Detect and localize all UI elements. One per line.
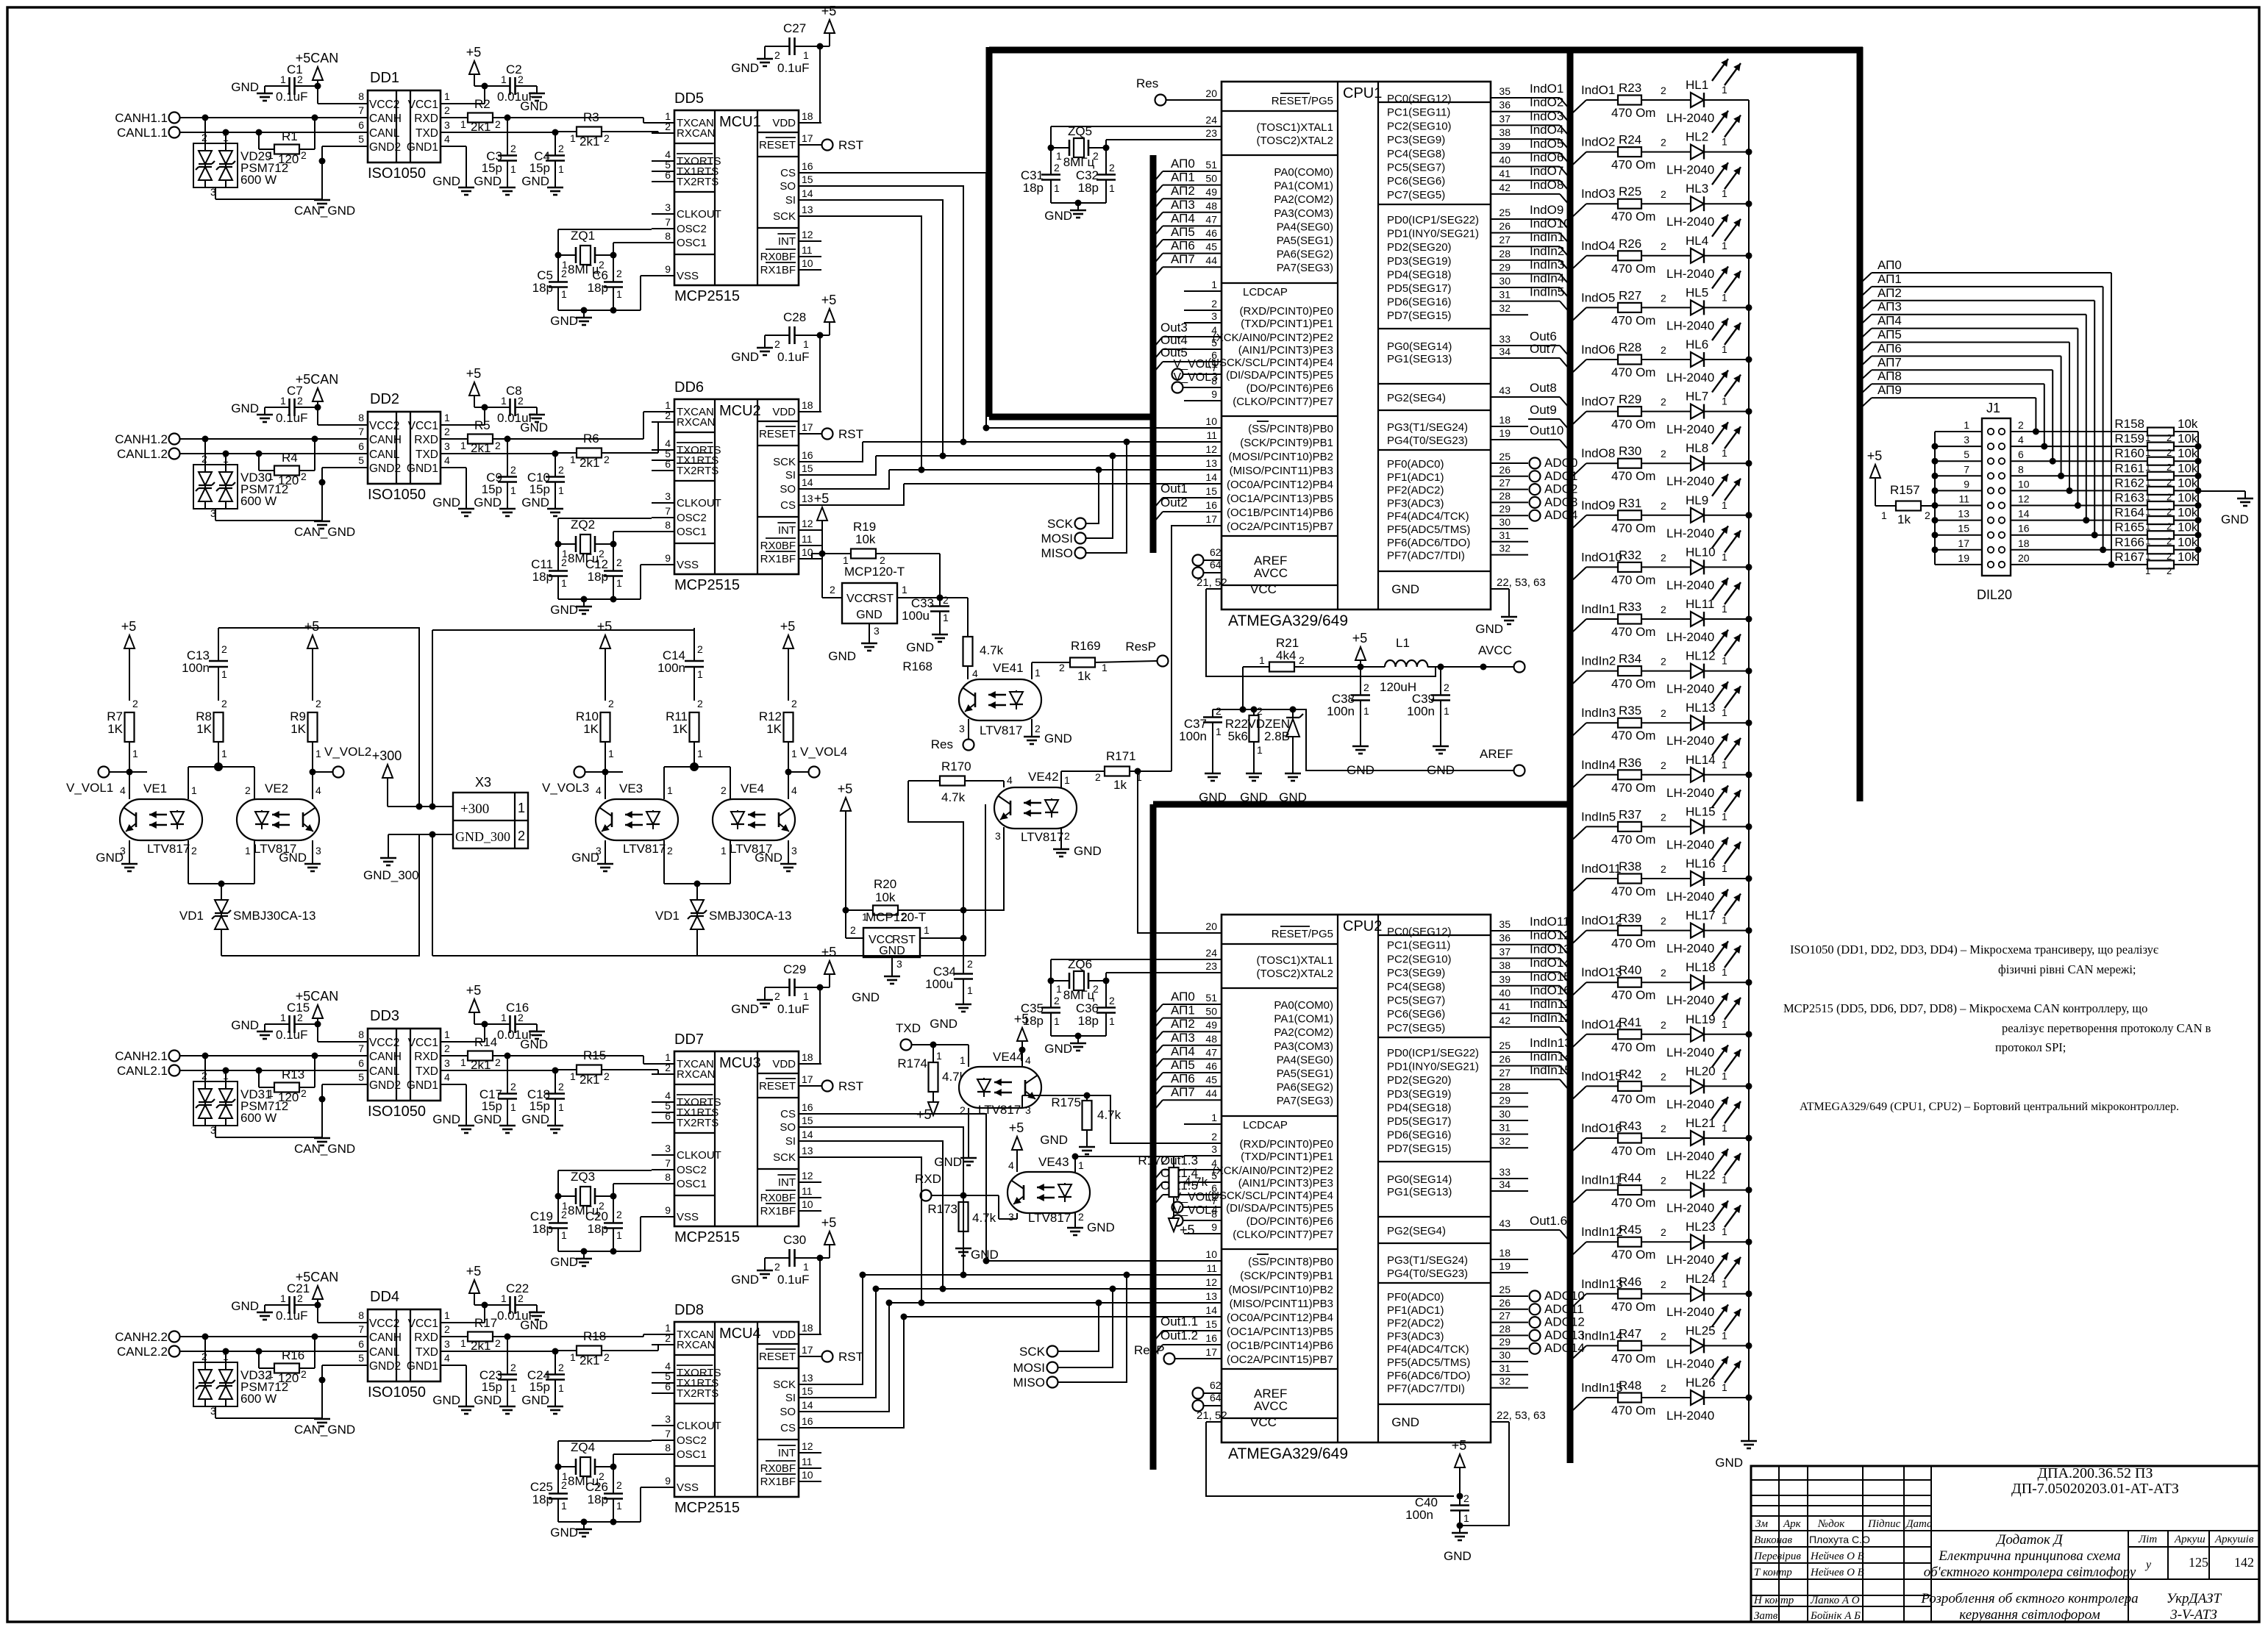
svg-text:DD2: DD2 <box>370 391 399 407</box>
svg-text:1: 1 <box>1722 810 1727 822</box>
svg-text:2: 2 <box>1463 1492 1469 1504</box>
svg-text:39: 39 <box>1499 140 1511 152</box>
svg-text:PF6(ADC6/TDO): PF6(ADC6/TDO) <box>1387 537 1470 549</box>
node Out1.5 <box>1155 1179 1198 1204</box>
svg-text:25: 25 <box>1499 207 1511 218</box>
svg-text:470 Om: 470 Om <box>1611 210 1655 224</box>
svg-text:HL3: HL3 <box>1686 182 1708 196</box>
diode VD1 SMBJ30CA-13 <box>655 898 792 956</box>
svg-text:2: 2 <box>1661 1175 1666 1187</box>
ground <box>1427 739 1455 777</box>
resistor R161 10k <box>2114 461 2201 487</box>
terminal ADC14 <box>1530 1341 1585 1355</box>
node АП4 <box>1155 211 1195 235</box>
capacitor C21 0.1uF <box>265 1281 318 1323</box>
svg-text:Плохута С.О: Плохута С.О <box>1809 1534 1870 1545</box>
svg-text:+5CAN: +5CAN <box>296 1270 339 1284</box>
svg-text:1: 1 <box>460 1337 466 1349</box>
svg-text:PF4(ADC4/TCK): PF4(ADC4/TCK) <box>1387 510 1469 523</box>
wire CPU2 reset from ResP <box>1138 771 1184 933</box>
svg-text:9: 9 <box>665 552 671 564</box>
svg-text:27: 27 <box>1499 1310 1511 1322</box>
svg-text:3: 3 <box>896 958 902 970</box>
capacitor C28 0.1uF <box>765 310 820 364</box>
svg-text:6: 6 <box>665 458 671 470</box>
wire thick bus horizontal to CPU1 <box>989 414 1153 421</box>
svg-text:2: 2 <box>1661 1019 1666 1031</box>
terminal Res <box>931 737 974 751</box>
svg-text:LH-2040: LH-2040 <box>1666 1305 1714 1319</box>
wire +5 to VCC pin <box>821 554 823 598</box>
svg-text:62: 62 <box>1210 546 1222 558</box>
svg-text:2: 2 <box>1054 995 1060 1006</box>
svg-text:HL22: HL22 <box>1686 1168 1716 1182</box>
svg-text:100n: 100n <box>182 661 210 675</box>
resistor R44 470 Om (IndIn11) <box>1573 1171 1691 1210</box>
svg-text:4: 4 <box>972 668 978 679</box>
svg-text:GND: GND <box>1279 790 1307 804</box>
svg-text:21, 52: 21, 52 <box>1197 1409 1227 1422</box>
svg-text:GND: GND <box>432 1112 460 1126</box>
ground <box>279 851 321 871</box>
svg-text:(SS/PCINT8)PB0: (SS/PCINT8)PB0 <box>1248 1256 1333 1268</box>
svg-text:1K: 1K <box>290 722 306 736</box>
svg-text:OSC2: OSC2 <box>677 512 707 524</box>
svg-text:АП3: АП3 <box>1171 198 1195 212</box>
svg-text:2: 2 <box>1093 150 1099 162</box>
svg-text:VE43: VE43 <box>1038 1155 1069 1169</box>
svg-text:1: 1 <box>268 471 274 482</box>
svg-text:VSS: VSS <box>677 1211 699 1223</box>
svg-text:GND2: GND2 <box>369 1079 401 1092</box>
svg-text:27: 27 <box>1499 1067 1511 1079</box>
svg-text:30: 30 <box>1499 516 1511 528</box>
svg-text:(OC2A/PCINT15)PB7: (OC2A/PCINT15)PB7 <box>1227 1354 1333 1366</box>
power +5 <box>1009 1120 1024 1159</box>
svg-text:ISO1050 (DD1, DD2, DD3, DD4): ISO1050 (DD1, DD2, DD3, DD4) – Мікросхем… <box>1790 943 2158 956</box>
svg-text:OSC1: OSC1 <box>677 1448 707 1461</box>
svg-text:12: 12 <box>1205 1276 1217 1288</box>
svg-text:CPU1: CPU1 <box>1343 85 1382 101</box>
svg-text:1: 1 <box>1035 667 1041 679</box>
svg-text:Т контр: Т контр <box>1754 1567 1792 1578</box>
svg-text:MCP2515: MCP2515 <box>674 288 740 304</box>
svg-text:10k: 10k <box>2178 446 2198 460</box>
wire DD5 CS <box>799 173 990 432</box>
svg-text:LH-2040: LH-2040 <box>1666 1045 1714 1059</box>
svg-text:2: 2 <box>774 990 780 1002</box>
svg-text:GND_300: GND_300 <box>455 829 510 844</box>
svg-text:18: 18 <box>2018 537 2030 549</box>
ground <box>432 146 474 195</box>
svg-text:АП4: АП4 <box>1171 1044 1195 1058</box>
svg-text:3: 3 <box>210 1124 216 1136</box>
svg-text:ADC2: ADC2 <box>1544 482 1577 496</box>
svg-text:1: 1 <box>1722 396 1727 407</box>
wire SPI bus CPU2 horizontals <box>863 1261 1184 1317</box>
crystal ZQ3 8MHz <box>555 1170 652 1217</box>
svg-text:2: 2 <box>191 845 197 857</box>
svg-text:(TOSC2)XTAL2: (TOSC2)XTAL2 <box>1257 135 1333 147</box>
svg-text:1: 1 <box>1722 1226 1727 1237</box>
optocoupler VE4 LTV817 <box>713 767 797 884</box>
node Out1 <box>1155 482 1188 507</box>
svg-text:GND: GND <box>1040 1133 1068 1147</box>
svg-text:L1: L1 <box>1396 636 1410 650</box>
svg-text:14: 14 <box>802 476 813 488</box>
wire thick bus top horizontal <box>989 47 1863 54</box>
svg-text:3: 3 <box>665 1413 671 1425</box>
svg-text:18: 18 <box>1499 1247 1511 1259</box>
svg-text:27: 27 <box>1499 234 1511 246</box>
svg-text:2: 2 <box>561 1479 567 1491</box>
svg-text:HL18: HL18 <box>1686 960 1716 974</box>
ground <box>731 46 773 75</box>
svg-text:GND: GND <box>231 1018 259 1032</box>
svg-text:R2: R2 <box>474 97 491 111</box>
node IndO13 <box>1528 942 1571 968</box>
capacitor C16 0.01uF <box>485 1001 537 1042</box>
svg-text:2: 2 <box>1299 654 1305 666</box>
svg-text:2: 2 <box>444 426 450 437</box>
svg-text:CAN_GND: CAN_GND <box>294 204 355 218</box>
svg-text:GND: GND <box>1391 1415 1419 1429</box>
svg-text:1: 1 <box>561 1229 567 1241</box>
capacitor C33 100u <box>902 554 949 627</box>
terminal RST <box>822 427 864 441</box>
svg-text:R174: R174 <box>897 1056 927 1070</box>
LED HL19 LH-2040 <box>1666 993 1752 1059</box>
terminal AREF CPU1 <box>1193 546 1288 568</box>
svg-text:PA7(SEG3): PA7(SEG3) <box>1277 262 1333 274</box>
svg-text:3: 3 <box>959 723 965 734</box>
wire DD8 SI <box>799 1286 880 1398</box>
svg-text:2: 2 <box>221 698 227 709</box>
node Out7 <box>1528 342 1569 368</box>
svg-text:PF5(ADC5/TMS): PF5(ADC5/TMS) <box>1387 523 1470 536</box>
resistor R15 2k1 <box>441 1048 610 1087</box>
svg-text:4: 4 <box>444 454 450 466</box>
svg-text:2: 2 <box>2167 565 2172 576</box>
svg-text:GND: GND <box>474 174 502 188</box>
power +5CAN node <box>296 1270 345 1323</box>
svg-text:2: 2 <box>315 698 321 709</box>
LED HL13 LH-2040 <box>1666 682 1752 748</box>
IC MCP120-T supervisor <box>846 910 963 970</box>
ground <box>731 987 773 1016</box>
svg-text:(USCK/SCL/PCINT4)PE4: (USCK/SCL/PCINT4)PE4 <box>1208 357 1333 369</box>
node IndO14 <box>1528 956 1571 982</box>
svg-text:IndO7: IndO7 <box>1581 395 1615 409</box>
svg-text:X3: X3 <box>475 775 491 790</box>
power +5 <box>466 45 488 104</box>
wire RXD to MCP <box>504 1053 675 1065</box>
svg-text:1: 1 <box>510 1382 516 1394</box>
svg-text:4: 4 <box>2018 434 2024 446</box>
svg-text:CANL: CANL <box>369 127 400 140</box>
svg-text:PA1(COM1): PA1(COM1) <box>1274 180 1333 193</box>
svg-text:IndO4: IndO4 <box>1530 123 1563 137</box>
svg-text:CANH2.2: CANH2.2 <box>115 1330 168 1344</box>
svg-text:1K: 1K <box>672 722 688 736</box>
svg-text:IndIn3: IndIn3 <box>1530 257 1564 271</box>
wire DD7 SI <box>799 1141 946 1292</box>
svg-text:2: 2 <box>1035 723 1041 734</box>
svg-text:R44: R44 <box>1619 1171 1641 1185</box>
svg-text:15: 15 <box>802 1115 813 1126</box>
svg-text:2: 2 <box>495 1337 501 1349</box>
svg-text:R28: R28 <box>1619 340 1641 354</box>
svg-text:4: 4 <box>444 1071 450 1083</box>
svg-text:9: 9 <box>1211 388 1217 400</box>
svg-text:MCP120-T: MCP120-T <box>844 565 905 579</box>
svg-text:VCC: VCC <box>1250 582 1277 596</box>
svg-text:INT: INT <box>778 235 796 248</box>
svg-text:GND1: GND1 <box>407 1079 438 1092</box>
svg-text:38: 38 <box>1499 126 1511 138</box>
svg-text:R27: R27 <box>1619 288 1641 302</box>
svg-text:16: 16 <box>802 449 813 461</box>
svg-text:18p: 18p <box>532 1492 553 1506</box>
svg-text:LCDCAP: LCDCAP <box>1243 1119 1288 1131</box>
svg-text:1: 1 <box>280 1292 286 1304</box>
svg-text:18p: 18p <box>1023 181 1044 195</box>
svg-text:GND: GND <box>231 1299 259 1313</box>
resistor R18 2k1 <box>441 1329 610 1367</box>
node АП5 bus to J1 <box>1861 328 2073 494</box>
IC CPU1 right pins <box>1387 85 1546 596</box>
LED HL17 LH-2040 <box>1666 890 1752 956</box>
ground <box>550 1251 592 1269</box>
ground <box>955 1241 999 1262</box>
svg-text:HL23: HL23 <box>1686 1220 1716 1234</box>
svg-text:2: 2 <box>1661 551 1666 563</box>
node IndO11 <box>1528 915 1570 941</box>
svg-text:PG3(T1/SEG24): PG3(T1/SEG24) <box>1387 421 1468 434</box>
svg-text:IndO14: IndO14 <box>1530 956 1571 970</box>
svg-text:OSC2: OSC2 <box>677 1434 707 1447</box>
svg-text:2: 2 <box>1211 298 1217 310</box>
svg-text:УкрДАЗТ: УкрДАЗТ <box>2167 1591 2222 1606</box>
svg-text:35: 35 <box>1499 85 1511 97</box>
svg-text:IndO15: IndO15 <box>1581 1069 1622 1083</box>
svg-text:PF4(ADC4/TCK): PF4(ADC4/TCK) <box>1387 1343 1469 1356</box>
wire thick bus CPU1 left vertical <box>1150 155 1157 553</box>
svg-text:15: 15 <box>802 174 813 185</box>
svg-text:470 Om: 470 Om <box>1611 781 1655 795</box>
svg-text:R20: R20 <box>874 877 896 891</box>
resistor R42 470 Om (IndO15) <box>1573 1067 1691 1106</box>
terminal Res <box>1136 76 1184 106</box>
svg-text:RXCAN: RXCAN <box>677 416 716 429</box>
svg-text:R169: R169 <box>1071 639 1101 653</box>
terminal ADC12 <box>1530 1315 1585 1329</box>
svg-text:(TXD/PCINT1)PE1: (TXD/PCINT1)PE1 <box>1241 1151 1333 1163</box>
svg-text:CAN_GND: CAN_GND <box>294 525 355 539</box>
svg-text:R25: R25 <box>1619 185 1641 199</box>
svg-text:10: 10 <box>802 1469 813 1481</box>
svg-text:PC4(SEG8): PC4(SEG8) <box>1387 148 1445 160</box>
svg-text:4.7k: 4.7k <box>972 1211 996 1225</box>
ground <box>550 1522 592 1540</box>
svg-text:2: 2 <box>518 1292 524 1304</box>
svg-text:LH-2040: LH-2040 <box>1666 1149 1714 1163</box>
svg-text:1: 1 <box>1722 499 1727 511</box>
svg-text:PF3(ADC3): PF3(ADC3) <box>1387 1330 1444 1342</box>
svg-text:5: 5 <box>1211 1170 1217 1181</box>
svg-text:LH-2040: LH-2040 <box>1666 1097 1714 1111</box>
svg-text:HL16: HL16 <box>1686 857 1716 870</box>
svg-text:2: 2 <box>558 464 564 476</box>
svg-text:RESET/PG5: RESET/PG5 <box>1272 95 1333 107</box>
svg-text:28: 28 <box>1499 1081 1511 1093</box>
svg-text:1: 1 <box>936 1050 942 1062</box>
svg-text:39: 39 <box>1499 973 1511 985</box>
svg-text:5: 5 <box>1964 448 1969 460</box>
svg-text:14: 14 <box>802 1399 813 1411</box>
capacitor C36 18p <box>1076 981 1116 1036</box>
svg-text:LH-2040: LH-2040 <box>1666 215 1714 229</box>
svg-text:IndIn12: IndIn12 <box>1530 1011 1572 1025</box>
svg-text:PG0(SEG14): PG0(SEG14) <box>1387 1173 1452 1186</box>
svg-text:3: 3 <box>1008 1211 1014 1223</box>
svg-text:PF7(ADC7/TDI): PF7(ADC7/TDI) <box>1387 550 1465 562</box>
svg-text:64: 64 <box>1210 559 1222 571</box>
resistor R16 120 <box>256 1334 318 1386</box>
svg-text:2: 2 <box>616 1209 622 1220</box>
svg-text:2: 2 <box>518 395 524 407</box>
svg-text:17: 17 <box>802 421 813 433</box>
svg-text:ISO1050: ISO1050 <box>368 1104 426 1120</box>
svg-text:1: 1 <box>943 612 949 623</box>
svg-text:49: 49 <box>1205 186 1217 198</box>
svg-text:SCK: SCK <box>1019 1345 1046 1359</box>
terminal CANL1.2 <box>117 447 368 461</box>
svg-text:IndO11: IndO11 <box>1581 862 1622 876</box>
LED HL10 LH-2040 <box>1666 526 1752 592</box>
svg-text:2: 2 <box>510 1362 516 1373</box>
svg-text:2k1: 2k1 <box>580 456 599 470</box>
svg-text:2: 2 <box>1078 1211 1084 1223</box>
svg-text:PF3(ADC3): PF3(ADC3) <box>1387 497 1444 509</box>
svg-text:2: 2 <box>297 395 303 407</box>
svg-text:PA0(COM0): PA0(COM0) <box>1274 166 1333 179</box>
node IndIn11 <box>1528 997 1570 1023</box>
power +5 <box>1867 448 1886 506</box>
svg-text:R172: R172 <box>1138 1154 1168 1167</box>
svg-text:18: 18 <box>1499 414 1511 426</box>
node АП4 <box>1155 1044 1195 1068</box>
svg-text:10k: 10k <box>2178 535 2198 549</box>
node IndO3 <box>1528 109 1569 135</box>
svg-text:14: 14 <box>2018 508 2030 520</box>
resistor R173 4.7k <box>927 1195 996 1241</box>
svg-text:IndIn2: IndIn2 <box>1530 244 1564 258</box>
svg-text:470 Om: 470 Om <box>1611 1144 1655 1158</box>
capacitor C7 0.1uF <box>265 384 318 425</box>
svg-text:GND: GND <box>231 401 259 415</box>
svg-text:LCDCAP: LCDCAP <box>1243 286 1288 298</box>
svg-text:2: 2 <box>830 584 835 596</box>
svg-text:R26: R26 <box>1619 237 1641 251</box>
svg-text:VCC2: VCC2 <box>369 1037 399 1049</box>
svg-text:R1: R1 <box>282 129 298 143</box>
svg-text:АП5: АП5 <box>1877 328 1902 342</box>
svg-text:Аркушів: Аркушів <box>2214 1534 2254 1545</box>
svg-text:RX0BF: RX0BF <box>760 1192 796 1204</box>
node IndIn14 <box>1528 1050 1572 1076</box>
svg-text:IndO6: IndO6 <box>1530 151 1563 165</box>
svg-text:1: 1 <box>1064 774 1070 786</box>
svg-text:PD0(ICP1/SEG22): PD0(ICP1/SEG22) <box>1387 1047 1479 1059</box>
LED HL1 LH-2040 <box>1666 59 1749 125</box>
node IndO9 <box>1528 203 1569 229</box>
svg-text:GND: GND <box>934 1155 962 1169</box>
svg-text:1: 1 <box>570 132 576 144</box>
svg-text:R159: R159 <box>2114 432 2144 446</box>
svg-text:2: 2 <box>518 1012 524 1023</box>
svg-text:10: 10 <box>802 1198 813 1210</box>
svg-text:GND: GND <box>231 80 259 94</box>
svg-text:2: 2 <box>301 149 307 161</box>
resistor R40 470 Om (IndO13) <box>1573 963 1691 1002</box>
node Out2 <box>1155 496 1188 521</box>
svg-text:2: 2 <box>1661 1382 1666 1394</box>
diode VD30 PSM712 TVS <box>193 436 322 521</box>
svg-text:470 Om: 470 Om <box>1611 573 1655 587</box>
svg-text:VSS: VSS <box>677 1481 699 1494</box>
svg-text:14: 14 <box>1205 1304 1217 1316</box>
svg-text:VE1: VE1 <box>143 782 167 795</box>
svg-text:4: 4 <box>1025 1054 1031 1066</box>
svg-text:12: 12 <box>802 1440 813 1452</box>
svg-text:АП5: АП5 <box>1171 225 1195 239</box>
svg-text:ADC4: ADC4 <box>1544 508 1577 522</box>
capacitor C34 100u <box>925 938 973 997</box>
svg-text:OSC2: OSC2 <box>677 1164 707 1176</box>
svg-text:(RXD/PCINT0)PE0: (RXD/PCINT0)PE0 <box>1239 1138 1333 1151</box>
svg-text:18p: 18p <box>532 570 553 584</box>
svg-text:PD7(SEG15): PD7(SEG15) <box>1387 310 1452 322</box>
svg-text:470 Om: 470 Om <box>1611 832 1655 846</box>
svg-text:(SCK/PCINT9)PB1: (SCK/PCINT9)PB1 <box>1240 437 1333 449</box>
svg-text:ZQ2: ZQ2 <box>571 518 595 532</box>
svg-text:CANL1.1: CANL1.1 <box>117 126 168 140</box>
svg-text:PA6(SEG2): PA6(SEG2) <box>1277 248 1333 261</box>
LED HL2 LH-2040 <box>1666 111 1752 177</box>
svg-text:HL20: HL20 <box>1686 1064 1716 1078</box>
ground <box>828 636 877 663</box>
svg-text:1: 1 <box>444 1029 450 1040</box>
svg-text:32: 32 <box>1499 543 1511 554</box>
terminal MISO <box>1041 439 1130 561</box>
resistor R163 10k <box>2114 491 2201 518</box>
svg-text:470 Om: 470 Om <box>1611 937 1655 951</box>
wire TXD to MCP <box>552 422 675 457</box>
svg-text:Res: Res <box>931 737 953 751</box>
svg-text:LTV817: LTV817 <box>1028 1211 1071 1225</box>
svg-text:IndO8: IndO8 <box>1530 178 1563 192</box>
svg-text:GND2: GND2 <box>369 1360 401 1373</box>
svg-text:GND: GND <box>474 1393 502 1407</box>
svg-text:АП6: АП6 <box>1171 239 1195 253</box>
svg-text:PA2(COM2): PA2(COM2) <box>1274 1026 1333 1039</box>
svg-text:ADC0: ADC0 <box>1544 456 1577 470</box>
node АП9 bus to J1 <box>1861 383 2039 435</box>
svg-text:протокол SPI;: протокол SPI; <box>1995 1040 2066 1054</box>
svg-text:HL21: HL21 <box>1686 1116 1716 1130</box>
svg-text:2: 2 <box>1059 662 1065 673</box>
